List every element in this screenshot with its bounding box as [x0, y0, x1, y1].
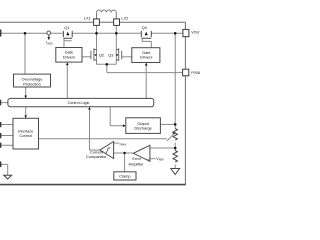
resistor R1 [173, 129, 177, 141]
op-amp current comparator [100, 142, 114, 159]
wire Q4 gate jog [142, 38, 151, 47]
transistor Q3 [116, 48, 121, 61]
IC right border [184, 22, 186, 184]
wire VREF stub [150, 158, 156, 160]
arrowhead CL to interface [24, 115, 27, 118]
junction dots [24, 32, 27, 35]
svg-text:Comparator: Comparator [86, 154, 107, 159]
svg-text:MAX: MAX [121, 143, 127, 147]
pad GND tick [0, 162, 1, 168]
svg-text:LX1: LX1 [84, 16, 91, 20]
wire interface DVS line [39, 133, 175, 141]
box Clamp [114, 172, 136, 180]
wire LX1 column [96, 25, 98, 64]
wire IMAX stub [114, 142, 119, 144]
pad LX2 [114, 19, 120, 26]
box Interface Control [13, 118, 39, 149]
box Control Logic [8, 98, 154, 106]
wire output discharge to divider [160, 123, 175, 125]
wire right driver enable [145, 65, 147, 99]
wire left driver gate [64, 38, 72, 47]
box Overvoltage Protection [14, 74, 51, 87]
IC bottom border [0, 184, 186, 186]
svg-text:Q1: Q1 [64, 25, 69, 30]
wire IN rail y=33 [0, 32, 183, 34]
transistor Q1 [63, 31, 72, 38]
wire left driver enable [66, 65, 68, 98]
wire control logic to output discharge [110, 107, 124, 126]
svg-text:Control Logic: Control Logic [68, 101, 90, 105]
wire VOUT sense column [174, 33, 176, 168]
svg-text:Drivers: Drivers [140, 55, 152, 60]
transistor Q4 [141, 31, 151, 38]
wire LX2 column [115, 25, 117, 64]
box Gate Drivers right [132, 48, 160, 63]
pad LX1 [94, 19, 100, 26]
wire Q2 source bus [97, 64, 183, 72]
arrowhead DVS into R1 [172, 132, 175, 135]
svg-text:SNS: SNS [47, 41, 53, 45]
current sense ICHG circle [47, 31, 51, 35]
wire ICHG arrow stem [48, 35, 50, 38]
arrowhead OVP to CL [24, 96, 27, 99]
svg-text:Control: Control [19, 133, 32, 138]
op-amp error amplifier [133, 145, 150, 161]
pad IN tick [0, 30, 1, 37]
wire error amp out to comparator [114, 153, 134, 172]
svg-text:Discharge: Discharge [134, 126, 152, 131]
box Output Discharge [126, 118, 161, 134]
transistor Q2 [91, 48, 97, 61]
wire FB to error amp [150, 147, 175, 149]
svg-text:REF: REF [159, 158, 165, 162]
svg-text:Amplifier: Amplifier [128, 161, 144, 166]
wire Q3 gate [122, 56, 132, 58]
svg-text:VOUT: VOUT [191, 31, 200, 35]
pad SCL tick [0, 133, 1, 138]
svg-text:Q3: Q3 [108, 53, 113, 58]
wire interface pads [1, 125, 13, 146]
wire Q2 gate [82, 56, 91, 58]
wire control logic pad [1, 102, 8, 104]
pad PGND [183, 69, 189, 76]
wire control logic to interface [25, 107, 27, 117]
ground symbol left [4, 175, 12, 179]
inductor L1 [97, 10, 117, 19]
arrowhead comparator to CL [88, 107, 91, 110]
svg-text:PGND: PGND [191, 71, 200, 75]
pad EN tick [0, 143, 1, 148]
pad CL tick [0, 100, 1, 106]
arrowhead into right gate driver [145, 63, 148, 66]
arrowhead into left gate driver [66, 62, 69, 65]
pad VOUT [183, 29, 189, 36]
IC top border [0, 21, 185, 23]
svg-text:Clamp: Clamp [119, 173, 130, 178]
wire OVP sense drop [24, 33, 26, 74]
wire OVP to control logic [25, 87, 27, 97]
box Gate Drivers left [56, 48, 82, 63]
arrowhead CL to output discharge [123, 124, 126, 127]
svg-text:Drivers: Drivers [63, 54, 75, 59]
svg-text:Q4: Q4 [142, 25, 148, 30]
wire comparator to control logic [90, 108, 101, 150]
svg-text:+: + [147, 158, 149, 162]
svg-text:-: - [147, 147, 148, 151]
svg-text:Protection: Protection [23, 81, 41, 86]
svg-text:LX2: LX2 [121, 16, 128, 20]
pad SDA tick [0, 122, 1, 127]
wire gnd pad [1, 164, 8, 175]
current sense arrowhead [48, 37, 51, 40]
resistor R2 [173, 151, 177, 163]
ground symbol right [171, 169, 180, 175]
svg-text:Q2: Q2 [99, 53, 104, 58]
